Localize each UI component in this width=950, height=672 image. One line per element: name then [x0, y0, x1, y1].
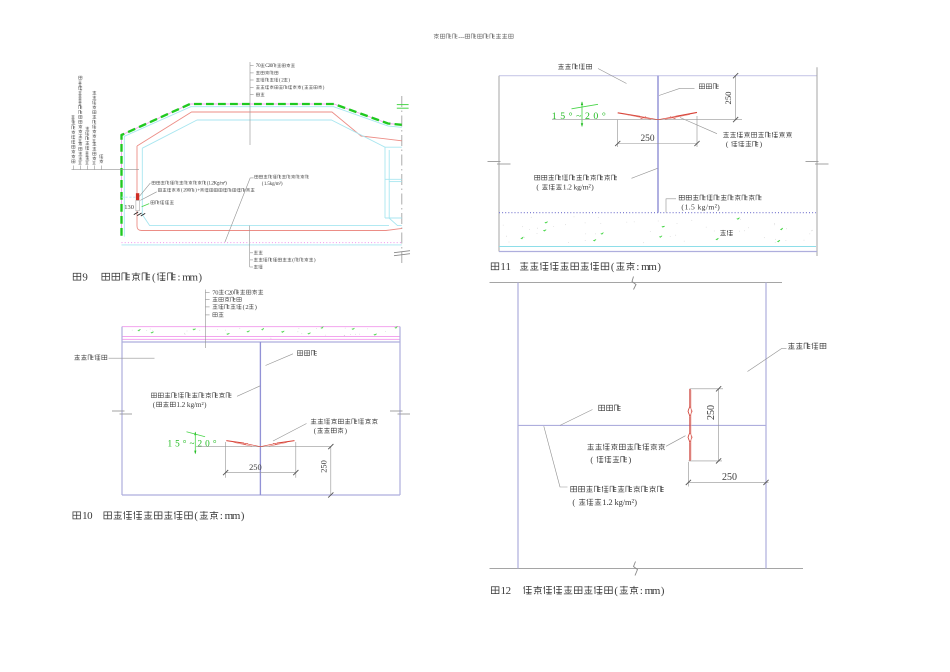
svg-text:12: 12	[501, 585, 512, 597]
svg-text:): )	[629, 455, 632, 464]
svg-text:11: 11	[500, 261, 511, 273]
svg-text:): )	[345, 427, 348, 435]
svg-text:(: (	[572, 498, 575, 507]
svg-text:mm: mm	[645, 585, 661, 597]
svg-text:(: (	[590, 455, 593, 464]
svg-text:---: ---	[458, 33, 464, 40]
svg-text:(: (	[152, 272, 156, 283]
svg-text:250: 250	[723, 92, 733, 105]
svg-text:(: (	[302, 86, 304, 91]
svg-text::: :	[178, 272, 181, 283]
svg-text:(: (	[314, 427, 317, 435]
svg-text:): )	[717, 202, 720, 211]
svg-text:(: (	[614, 586, 618, 597]
svg-text:): )	[255, 304, 257, 311]
svg-text:1.5 kg/m²: 1.5 kg/m²	[685, 202, 718, 211]
svg-text:1.2 kg/m²: 1.2 kg/m²	[176, 400, 204, 409]
svg-text:): )	[634, 498, 637, 507]
svg-text:(: (	[292, 259, 294, 264]
svg-text:250: 250	[249, 463, 262, 472]
svg-text:): )	[241, 511, 245, 522]
svg-text:70: 70	[212, 289, 218, 296]
svg-text:C20: C20	[265, 64, 273, 69]
svg-text::: :	[636, 262, 639, 273]
svg-text:2: 2	[245, 304, 248, 311]
svg-text:250: 250	[640, 134, 654, 144]
svg-text:C20: C20	[225, 289, 234, 296]
svg-text:(: (	[726, 139, 729, 148]
svg-text:250: 250	[319, 460, 328, 473]
svg-text:(1.2Kg/m²): (1.2Kg/m²)	[207, 180, 227, 186]
svg-text:1.2 kg/m²: 1.2 kg/m²	[563, 183, 592, 192]
svg-text:+: +	[197, 189, 200, 194]
svg-text:): )	[204, 401, 207, 409]
svg-text:): )	[288, 79, 290, 84]
svg-text:250: 250	[722, 472, 737, 483]
svg-text:130: 130	[124, 204, 134, 211]
svg-text:(: (	[611, 262, 615, 273]
svg-text:(: (	[194, 511, 198, 522]
svg-text:1.5kg/m²): 1.5kg/m²)	[264, 181, 283, 187]
svg-text:mm: mm	[641, 261, 657, 273]
svg-text:9: 9	[82, 271, 87, 283]
svg-text:250: 250	[706, 405, 717, 420]
svg-text:200: 200	[183, 189, 191, 194]
svg-text:): )	[657, 262, 661, 273]
svg-text:mm: mm	[182, 271, 198, 283]
svg-text::: :	[220, 511, 223, 522]
svg-text:(: (	[536, 183, 539, 192]
svg-text::: :	[640, 586, 643, 597]
svg-text:): )	[323, 86, 325, 91]
svg-text:(: (	[153, 401, 156, 409]
svg-text:10: 10	[82, 510, 93, 522]
svg-text:): )	[314, 259, 316, 264]
svg-text:): )	[760, 139, 763, 148]
svg-text:): )	[199, 272, 203, 283]
svg-text:1.2 kg/m²: 1.2 kg/m²	[602, 497, 634, 507]
svg-text:(: (	[243, 304, 245, 311]
svg-text:): )	[661, 586, 665, 597]
svg-text:): )	[591, 183, 594, 192]
svg-text:2: 2	[281, 79, 284, 84]
svg-text:70: 70	[256, 64, 261, 69]
svg-text:15°~20°: 15°~20°	[552, 111, 606, 122]
svg-text:mm: mm	[225, 510, 241, 522]
